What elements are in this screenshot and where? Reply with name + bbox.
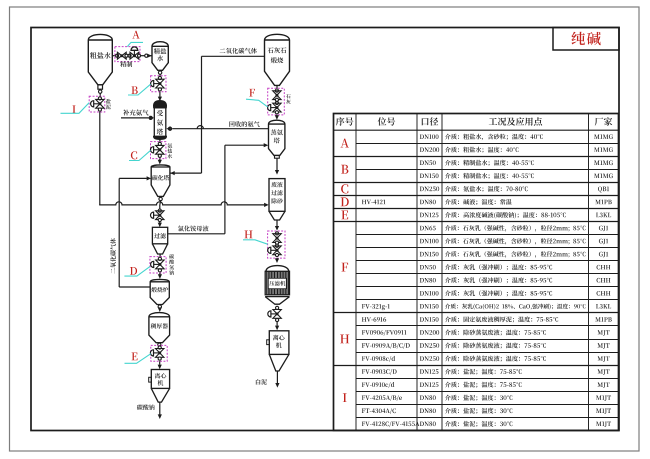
leader A: [127, 42, 143, 46]
valve A2: [128, 54, 131, 57]
pipe CO2石灰窑->碳化塔 right: [170, 172, 201, 174]
label 碳化塔: [152, 175, 169, 180]
label 蒸氨塔: [271, 129, 283, 135]
valve F2: [275, 101, 278, 104]
wire 压滤机->valve: [276, 306, 279, 309]
wire C->碳化塔: [159, 159, 161, 161]
vessel 稠厚器: [149, 313, 170, 343]
inner drawing frame: [31, 28, 619, 431]
table header: [336, 117, 353, 125]
side label 氨盐水: [168, 143, 173, 148]
vessel 煅烧炉: [150, 279, 169, 304]
tank 精盐水: [152, 42, 168, 71]
label 压滤机: [269, 281, 285, 286]
wire 碳化塔->valve: [159, 201, 162, 205]
label H: [245, 231, 253, 239]
title box: [553, 28, 619, 51]
vessel 碳化塔: [151, 165, 170, 197]
label E: [132, 353, 138, 361]
side label 碳酸氢钠: [169, 254, 174, 259]
table group letters A-I: [340, 139, 349, 148]
valve F1: [275, 89, 278, 92]
wire D->煅烧炉: [159, 273, 161, 275]
label 粗盐水: [90, 52, 111, 59]
vessel 受氨塔: [154, 101, 167, 106]
wire 离心机->碳酸钠 out: [159, 402, 161, 415]
label 煅烧炉: [151, 287, 168, 292]
valve-box B: [151, 76, 166, 92]
label A: [132, 31, 139, 39]
side label 盐泥: [106, 99, 111, 104]
valve-box F: [268, 88, 285, 115]
label C: [131, 151, 137, 159]
pipe 补充氨气: [121, 117, 149, 119]
label 碳酸钠: [137, 404, 155, 410]
wire B->受氨塔: [159, 92, 161, 98]
wire 受氨塔->C: [159, 139, 161, 141]
label F: [249, 89, 255, 97]
valve-box D: [150, 257, 166, 273]
wire 粗盐水->valveI: [99, 93, 101, 96]
label B: [131, 86, 137, 94]
leader D: [124, 267, 149, 277]
wire 煅烧炉->稠厚器: [159, 307, 161, 309]
label 石灰石煅烧: [268, 47, 287, 53]
label D: [130, 267, 137, 275]
valve H1: [275, 232, 278, 235]
label 过滤: [154, 233, 166, 239]
vessel 蒸氨塔: [269, 120, 285, 155]
valve-box H: [268, 231, 285, 258]
wire E->离心机: [159, 361, 161, 364]
pipe A->精盐水: [140, 55, 152, 57]
valve C: [158, 142, 161, 145]
valve-box I: [89, 96, 105, 112]
valve-box C: [151, 142, 166, 159]
wire 离心机右->白泥 out: [276, 371, 278, 383]
valve H2: [275, 244, 278, 247]
wire valveI down + 盐泥 line to 废液过滤除砂: [99, 112, 101, 205]
vessel 废液过滤除砂: [269, 179, 285, 212]
pipe 粗盐水->A: [112, 55, 115, 57]
leader C: [129, 150, 151, 160]
valve-box A: [115, 47, 140, 62]
valve A1: [116, 54, 119, 57]
label 精盐水: [154, 48, 166, 54]
table grid: [334, 114, 619, 431]
wire 蒸氨塔->废液: [276, 158, 278, 170]
label 二氧化碳气体: [220, 48, 257, 54]
leader I: [61, 103, 90, 114]
tank 粗盐水: [88, 34, 112, 84]
label 补充氨气: [123, 110, 148, 116]
label 离心机右: [273, 335, 285, 341]
valve-box E: [151, 345, 167, 361]
label 白泥: [256, 379, 267, 385]
wire 废液->H: [276, 220, 278, 227]
wire 精盐水->B: [159, 74, 161, 76]
vessel 过滤: [152, 227, 167, 244]
label 废液过滤除砂: [271, 182, 282, 187]
label 稠厚器: [151, 323, 168, 328]
wire 石灰石->F: [276, 85, 278, 88]
vessel 离心机右: [269, 331, 289, 355]
label 离心机左: [155, 373, 167, 379]
valve B: [158, 76, 161, 79]
vessel 压滤机: [266, 266, 289, 272]
label 回收的氨气: [229, 121, 259, 127]
valve E: [158, 346, 161, 349]
valve I: [98, 97, 101, 100]
label 受氨塔: [157, 110, 163, 116]
pipe CO2煅烧炉->碳化塔 left: [118, 178, 120, 287]
label I: [72, 105, 75, 113]
leader H: [243, 240, 268, 244]
wire F->蒸氨塔: [276, 115, 278, 116]
vessel 离心机左: [151, 370, 169, 389]
table body rows: [420, 134, 439, 139]
label 氯化铵母液: [178, 226, 209, 232]
valve 碳化塔下: [158, 209, 161, 212]
label 精制: [120, 61, 132, 67]
leader F: [246, 99, 268, 107]
wire valve->过滤: [159, 222, 161, 224]
title 纯碱: [572, 32, 601, 46]
leader B: [128, 84, 151, 95]
pipe 回收的氨气: [172, 126, 268, 129]
pipe 氯化铵母液: [168, 233, 225, 235]
side label 石灰: [286, 94, 291, 99]
wire 过滤->D: [159, 254, 161, 257]
label 二氧化碳气体 vertical: [110, 238, 116, 274]
wire H->压滤机: [276, 257, 278, 260]
tank 石灰石煅烧: [265, 34, 290, 85]
leader E: [125, 354, 151, 364]
valve D: [158, 257, 161, 260]
